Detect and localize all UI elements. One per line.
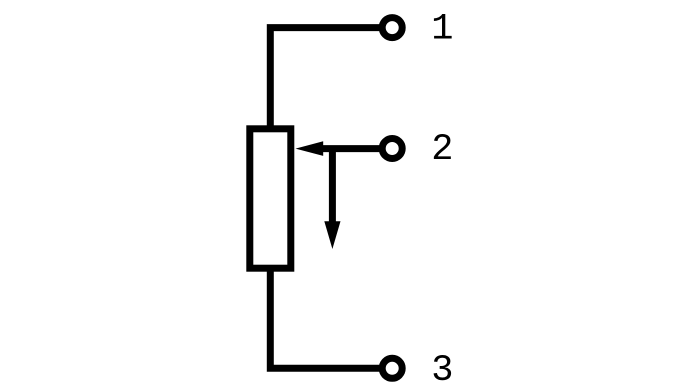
svg-text:2: 2 [431,129,453,171]
wire: wiper horizontal from terminal 2 [322,145,383,152]
wire: terminal 1 to resistor top [270,28,382,130]
wiper arrowhead pointing left at resistor [296,141,324,156]
resistor R (potentiometer body) [250,129,291,268]
wire: wiper vertical branch [329,149,336,222]
wire: resistor bottom to terminal 3 [270,267,382,368]
terminal 2 open circle [382,139,402,159]
arrowhead pointing down [324,221,340,249]
terminal 3 open circle [382,358,402,378]
svg-text:3: 3 [431,350,453,391]
svg-text:1: 1 [431,8,453,50]
terminal 1 open circle [382,18,402,38]
